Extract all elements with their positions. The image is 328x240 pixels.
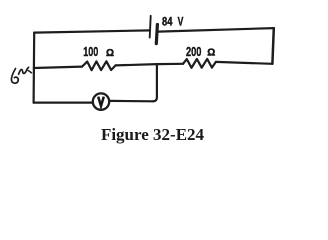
svg-text:84: 84 bbox=[162, 16, 172, 29]
wire middle branch center bbox=[116, 64, 183, 66]
svg-text:100: 100 bbox=[83, 46, 98, 60]
resistor R1 zigzag bbox=[82, 61, 116, 70]
voltmeter label V bbox=[98, 97, 104, 106]
battery long plate bbox=[150, 16, 151, 38]
wire right edge bbox=[272, 28, 273, 64]
svg-text:200: 200 bbox=[186, 46, 201, 60]
handwritten annotation 6v stroke 1 bbox=[11, 69, 18, 84]
svg-text:Figure 32-E24: Figure 32-E24 bbox=[101, 125, 205, 144]
svg-text:Ω: Ω bbox=[207, 48, 215, 59]
resistor R2 zigzag bbox=[183, 59, 216, 68]
wire middle branch right bbox=[216, 62, 273, 64]
battery short plate bbox=[156, 25, 157, 44]
handwritten tick at wire bbox=[28, 71, 31, 73]
wire bottom branch left bbox=[34, 101, 92, 103]
wire left edge bbox=[32, 33, 35, 103]
voltmeter circle bbox=[93, 93, 109, 109]
handwritten annotation 6v stroke 2 bbox=[19, 67, 29, 74]
svg-text:V: V bbox=[178, 16, 184, 29]
svg-text:Ω: Ω bbox=[106, 48, 114, 59]
wire top-right segment bbox=[159, 28, 274, 32]
wire bottom branch right bbox=[110, 100, 153, 103]
wire middle branch left bbox=[34, 67, 82, 68]
wire top-left segment bbox=[34, 30, 150, 32]
wire vertical connector to voltmeter branch bbox=[153, 64, 157, 101]
